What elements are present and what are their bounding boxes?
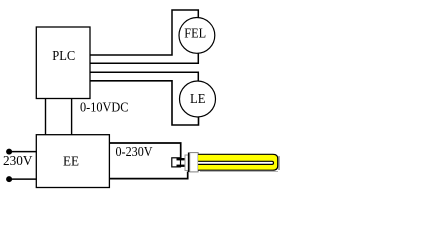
wire: PLC output 2 to FEL bottom [90, 40, 198, 63]
svg-text:FEL: FEL [184, 26, 206, 41]
box PLC [36, 27, 90, 99]
lamp tube inner slot [198, 161, 273, 164]
wire: EE to lamp holder top [109, 143, 180, 160]
wire: PLC output 4 to LE bottom [90, 81, 199, 125]
lamp tube shadow bottom [200, 171, 278, 173]
lamp holder box [172, 158, 181, 167]
box EE [36, 135, 109, 188]
wire: PLC to EE left connector [45, 99, 47, 136]
svg-text:230V: 230V [3, 154, 33, 169]
lamp pinch seal [185, 155, 188, 171]
terminal dot 230V top [6, 149, 12, 155]
lamp pin bottom [177, 165, 186, 167]
svg-text:0-10VDC: 0-10VDC [80, 101, 129, 116]
svg-text:EE: EE [63, 155, 79, 170]
lamp pin top [177, 158, 186, 160]
lamp FEL circle [179, 18, 215, 54]
wire: 230V top to EE [9, 151, 37, 153]
wire: EE to lamp seal bottom [109, 172, 187, 179]
lamp tube (yellow) [198, 154, 278, 170]
lamp tube shadow right [278, 156, 280, 170]
svg-text:LE: LE [190, 92, 206, 107]
wire: PLC output 3 to LE top [90, 72, 198, 95]
wire: 230V bottom to EE [9, 178, 37, 180]
svg-text:PLC: PLC [52, 49, 75, 64]
lamp LE circle [180, 81, 216, 117]
wire: PLC to EE right connector [71, 99, 73, 136]
wire: PLC output 1 to FEL top [90, 10, 198, 55]
lamp seal edge bar [188, 153, 190, 173]
lamp end cap [190, 153, 198, 172]
terminal dot 230V bottom [6, 176, 12, 182]
svg-text:0-230V: 0-230V [116, 145, 153, 160]
